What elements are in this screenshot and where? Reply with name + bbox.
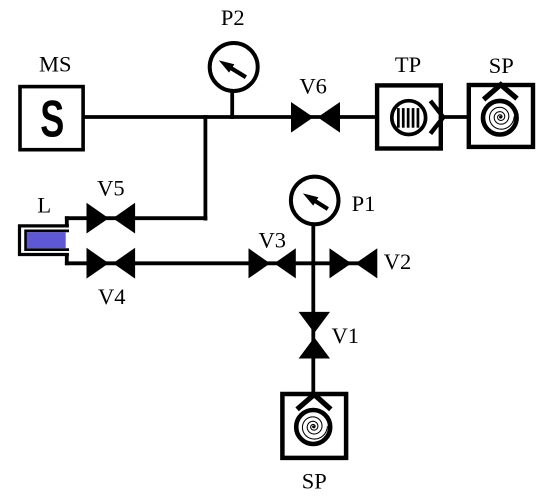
svg-text:V3: V3 — [259, 227, 287, 252]
valve V4 — [87, 248, 136, 279]
MS box — [20, 87, 83, 150]
valve V2 — [330, 248, 378, 278]
sample tube L blue liquid fill — [27, 232, 66, 248]
wire: TP to SP link — [441, 115, 469, 119]
gauge P1 dial — [291, 177, 339, 225]
svg-text:V6: V6 — [299, 74, 327, 99]
wire: P2 gauge stem — [230, 91, 234, 119]
TP rotor circle — [392, 101, 426, 135]
TP outlet chevron — [430, 101, 443, 134]
SP bottom scroll center dot — [312, 426, 314, 428]
wire: junction drop from manifold — [203, 115, 207, 220]
wire: V5 branch line — [65, 216, 207, 220]
turbo pump TP box — [377, 85, 441, 148]
scroll pump SP (top) box — [469, 85, 533, 147]
gauge P1 needle — [314, 200, 328, 209]
node: L coupling bottom stub — [65, 253, 69, 265]
SP top scroll center dot — [499, 116, 501, 118]
gauge P2 needle — [230, 67, 246, 77]
scroll pump SP (bottom) box — [282, 394, 346, 458]
svg-text:TP: TP — [395, 52, 421, 77]
wire: V4 branch line to V2 — [65, 261, 377, 265]
valve V3 — [249, 248, 296, 278]
valve V1 — [299, 312, 330, 359]
wire: P1 / V1 vertical stem — [311, 224, 315, 394]
SP bottom inlet chevron — [297, 395, 331, 410]
SP top inlet chevron — [484, 85, 517, 100]
SP top scroll circle — [483, 101, 517, 135]
valve V6 — [291, 102, 340, 133]
svg-text:L: L — [37, 192, 51, 217]
sample tube L inner vial border — [26, 231, 69, 250]
SP bottom scroll spiral — [302, 417, 327, 439]
node: L coupling top stub — [65, 216, 69, 227]
svg-text:V4: V4 — [98, 284, 126, 309]
TP rotor blades — [397, 108, 419, 128]
SP bottom scroll circle — [296, 410, 330, 444]
svg-text:V2: V2 — [384, 249, 412, 274]
svg-text:P2: P2 — [221, 5, 245, 30]
gauge P2 dial — [210, 43, 258, 91]
svg-text:V1: V1 — [332, 323, 360, 348]
svg-text:SP: SP — [302, 468, 327, 493]
valve V5 — [87, 203, 136, 234]
wire: main manifold line MS to TP — [84, 115, 377, 119]
svg-text:P1: P1 — [352, 191, 376, 216]
sample tube L outer wall — [20, 226, 69, 255]
svg-text:MS: MS — [39, 52, 72, 77]
svg-text:S: S — [40, 91, 64, 148]
svg-text:V5: V5 — [97, 175, 125, 200]
SP top scroll spiral — [489, 107, 514, 129]
svg-text:SP: SP — [489, 53, 514, 78]
